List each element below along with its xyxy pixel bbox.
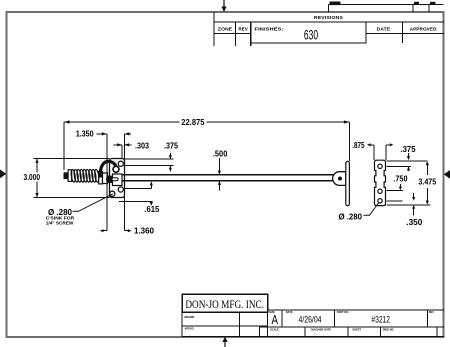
svg-text:#3212: #3212	[371, 314, 390, 325]
revisions table grid	[214, 12, 444, 46]
bracket hole top	[378, 164, 382, 168]
wall bracket front view	[375, 160, 386, 205]
dimension .303	[114, 145, 132, 158]
svg-text:.350: .350	[406, 218, 422, 227]
fold marker left edge	[0, 170, 6, 179]
dimension 22.875	[64, 122, 349, 170]
spring coil	[70, 169, 99, 182]
extension line left fixture B	[123, 134, 125, 231]
plate hole bottom-left	[110, 191, 115, 196]
latch slot	[112, 178, 118, 181]
svg-text:APPVD: APPVD	[185, 327, 194, 331]
svg-text:1.350: 1.350	[76, 130, 94, 139]
svg-text:.500: .500	[213, 149, 228, 158]
dimension .615	[119, 185, 152, 203]
svg-text:MACHINE DATE: MACHINE DATE	[311, 327, 331, 331]
extension line left fixture A	[106, 134, 108, 231]
svg-text:3.475: 3.475	[418, 178, 436, 187]
fold arrow bottom	[222, 337, 227, 347]
company box	[182, 294, 268, 312]
svg-text:APPROVED: APPROVED	[410, 27, 437, 32]
svg-text:DATE: DATE	[286, 310, 293, 314]
dimension .375 right	[386, 145, 390, 160]
svg-text:REVISIONS: REVISIONS	[314, 15, 343, 20]
finishes box	[251, 22, 366, 43]
svg-text:.375: .375	[164, 141, 178, 150]
revision strip tabs above border	[329, 5, 444, 13]
plunger housing	[103, 173, 108, 184]
plate hole top-right	[118, 161, 123, 166]
svg-text:630: 630	[304, 28, 318, 43]
dimension 3.000	[34, 159, 110, 198]
rod end lug	[333, 172, 346, 186]
lever arm eye	[113, 166, 119, 172]
svg-text:DON-JO MFG. INC.: DON-JO MFG. INC.	[185, 297, 264, 311]
latch block	[113, 174, 123, 186]
svg-text:DWG NO: DWG NO	[383, 327, 394, 331]
fold arrow top	[221, 0, 226, 12]
svg-text:DATE: DATE	[377, 27, 390, 32]
dimension .350	[386, 193, 413, 216]
dimension .375 right arrows	[408, 153, 410, 171]
svg-text:Ø .280: Ø .280	[339, 212, 363, 221]
rod	[122, 175, 334, 181]
svg-text:ZONE: ZONE	[218, 27, 232, 32]
bracket hole middle	[378, 189, 382, 193]
svg-text:DRAWN: DRAWN	[185, 315, 195, 319]
svg-text:1.360: 1.360	[134, 227, 154, 236]
svg-text:3.000: 3.000	[24, 173, 41, 182]
svg-text:REV: REV	[239, 27, 249, 32]
mounting plate left	[110, 159, 125, 198]
svg-text:A: A	[272, 312, 279, 327]
latch pawl	[106, 176, 112, 183]
plate hole bottom-right	[118, 187, 123, 192]
bracket extension top	[386, 160, 427, 162]
spring left collar	[68, 170, 72, 182]
lug pivot pin	[338, 177, 342, 181]
wall plate side view	[346, 161, 350, 205]
title block left grid	[182, 312, 268, 336]
svg-text:PART NO.: PART NO.	[337, 310, 349, 314]
svg-text:SHEET: SHEET	[352, 327, 361, 331]
lever arm	[100, 161, 116, 177]
svg-text:22.875: 22.875	[181, 118, 205, 127]
svg-text:.615: .615	[144, 205, 159, 214]
svg-text:1/4" SCREW: 1/4" SCREW	[46, 221, 74, 226]
dimension 3.475	[386, 165, 430, 205]
svg-text:.303: .303	[135, 141, 149, 150]
svg-text:.750: .750	[393, 175, 408, 184]
svg-text:.875: .875	[352, 141, 365, 150]
leader .280 left	[73, 194, 113, 212]
bracket hole bottom	[378, 199, 382, 203]
svg-text:REV: REV	[429, 310, 435, 314]
spring right collar	[99, 172, 103, 184]
title block right grid	[259, 310, 444, 336]
bracket extension hole1	[386, 165, 411, 167]
dimension 1.360	[103, 230, 128, 232]
leader .280 right	[364, 203, 379, 216]
spring end knob	[64, 172, 69, 179]
svg-text:4/26/04: 4/26/04	[299, 315, 322, 325]
fold marker right edge	[444, 170, 450, 179]
revision strip tab marks	[330, 2, 436, 6]
svg-text:SCALE: SCALE	[270, 327, 279, 331]
svg-text:FINISHES:: FINISHES:	[255, 27, 284, 32]
